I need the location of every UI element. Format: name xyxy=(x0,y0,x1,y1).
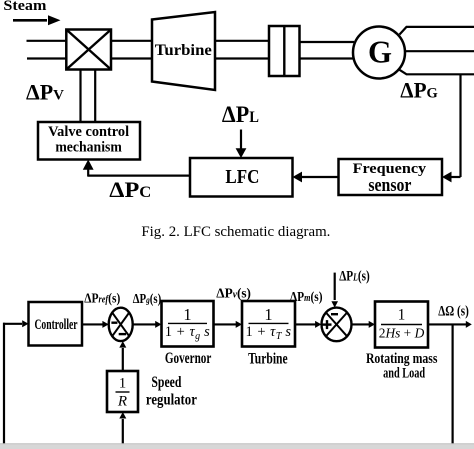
svg-text:Turbine: Turbine xyxy=(155,42,212,59)
svg-text:Frequency: Frequency xyxy=(353,161,427,177)
svg-text:1: 1 xyxy=(398,307,406,324)
svg-text:Fig. 2. LFC schematic diagram.: Fig. 2. LFC schematic diagram. xyxy=(141,224,330,240)
svg-text:ΔPm(s): ΔPm(s) xyxy=(290,290,323,305)
svg-text:1: 1 xyxy=(119,376,127,392)
svg-text:sensor: sensor xyxy=(368,176,411,196)
svg-text:and Load: and Load xyxy=(383,366,425,382)
svg-text:ΔPv(s): ΔPv(s) xyxy=(216,287,251,302)
svg-text:1: 1 xyxy=(264,305,272,324)
svg-text:2Hs + D: 2Hs + D xyxy=(379,326,425,341)
svg-text:Speed: Speed xyxy=(151,374,181,391)
svg-text:Steam: Steam xyxy=(3,0,46,14)
svg-text:regulator: regulator xyxy=(146,392,197,409)
svg-text:ΔΩ (s): ΔΩ (s) xyxy=(438,303,469,319)
svg-text:1: 1 xyxy=(183,305,191,324)
svg-text:R: R xyxy=(117,394,127,410)
svg-text:Valve control: Valve control xyxy=(48,124,129,140)
svg-text:ΔPref(s): ΔPref(s) xyxy=(84,291,120,306)
svg-text:Turbine: Turbine xyxy=(248,351,288,368)
svg-text:Governor: Governor xyxy=(165,350,212,367)
svg-text:LFC: LFC xyxy=(225,166,259,188)
svg-text:Controller: Controller xyxy=(35,317,78,333)
svg-text:mechanism: mechanism xyxy=(55,140,122,156)
svg-text:G: G xyxy=(368,34,392,69)
svg-text:1 + τg s: 1 + τg s xyxy=(165,324,210,342)
svg-text:1 + τT s: 1 + τT s xyxy=(245,324,291,342)
